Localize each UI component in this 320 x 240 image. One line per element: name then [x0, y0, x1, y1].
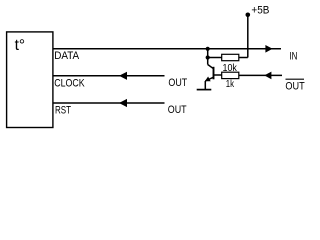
svg-text:1k: 1k [226, 79, 235, 90]
wire R1 left lead to node B [208, 57, 222, 59]
node A junction dot on DATA [206, 47, 210, 51]
wire +5B to R1 right lead [239, 57, 248, 59]
wire emitter down to ground [204, 81, 206, 90]
wire +5B vertical [247, 15, 249, 58]
IC U1 temperature sensor box [7, 32, 53, 128]
wire RST pin [53, 102, 165, 104]
transistor Q1 base bar [213, 67, 215, 80]
wire CLOCK pin [53, 75, 165, 77]
transistor Q1 collector lead [208, 65, 214, 69]
svg-text:RST: RST [55, 105, 71, 117]
svg-text:OUT: OUT [285, 81, 305, 93]
svg-text:+5B: +5B [251, 5, 269, 17]
svg-text:OUT: OUT [168, 77, 187, 89]
node B junction dot R1-collector [206, 55, 210, 59]
arrowhead RST input pointing left [119, 99, 127, 107]
svg-text:OUT: OUT [168, 104, 187, 116]
svg-text:CLOCK: CLOCK [54, 78, 85, 90]
svg-text:t°: t° [15, 37, 26, 54]
arrowhead CLOCK input pointing left [119, 72, 127, 80]
resistor R2 1k body [222, 72, 239, 78]
svg-text:IN: IN [289, 50, 297, 62]
wire R2 right lead to OUT-bar [239, 74, 282, 76]
svg-text:DATA: DATA [54, 50, 80, 62]
arrowhead IN pointing right [265, 45, 272, 53]
resistor R1 10k body [222, 54, 239, 60]
node +5B power dot [246, 13, 251, 18]
transistor Q1 emitter lead [205, 77, 213, 81]
wire DATA pin [53, 48, 281, 50]
transistor Q1 base lead [214, 74, 222, 76]
transistor Q1 emitter arrow NPN [205, 77, 211, 82]
overline of OUT-bar label [286, 78, 305, 80]
ground bar [197, 89, 212, 91]
wire node A to collector vertical [207, 49, 209, 65]
svg-text:10k: 10k [223, 62, 238, 74]
arrowhead OUT-bar pointing left [264, 72, 271, 80]
